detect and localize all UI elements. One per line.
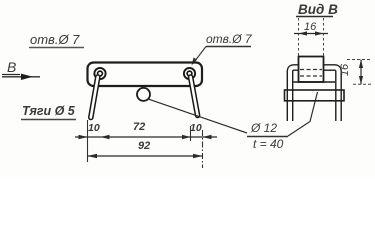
label Ø12 / t=40 [247, 121, 288, 151]
svg-text:92: 92 [138, 140, 150, 152]
svg-text:В: В [7, 59, 16, 75]
svg-text:Тяги Ø 5: Тяги Ø 5 [22, 104, 76, 118]
left pin (rod) [91, 77, 98, 118]
right pin (rod) [191, 77, 198, 116]
svg-text:10: 10 [88, 122, 100, 134]
dim 16 top: line and arrows [294, 31, 328, 35]
dimension line 10/72/10 [75, 135, 217, 140]
svg-text:t = 40: t = 40 [253, 137, 284, 151]
label: rods note bottom-left [21, 104, 76, 120]
label: holes note top-left [29, 32, 84, 48]
clamp view: U-bolt (stirrup) [290, 68, 339, 122]
clamp view: bar end (vertical rod) [299, 57, 324, 83]
svg-text:16: 16 [304, 21, 317, 33]
svg-text:10: 10 [190, 122, 202, 134]
clamp view: upper plate line [294, 81, 336, 83]
dim 16 right: line and arrows [359, 60, 363, 85]
bar (front view rounded plate) [88, 63, 203, 87]
view direction letter B [2, 59, 20, 75]
dim 16 right: extension lines [347, 60, 372, 85]
left hole [94, 68, 105, 79]
svg-text:Вид В: Вид В [298, 2, 338, 17]
extension line right pin [190, 126, 192, 141]
svg-text:отв.Ø 7: отв.Ø 7 [206, 32, 253, 46]
clamp view: wide plate [285, 90, 345, 101]
view B title [296, 2, 338, 17]
dim 16 top: extension lines [299, 18, 324, 56]
svg-text:отв.Ø 7: отв.Ø 7 [30, 32, 80, 47]
label: holes note top-middle [206, 32, 253, 47]
right hole [184, 68, 195, 79]
leader from Ø12 hole to its label [149, 99, 247, 133]
svg-text:Ø 12: Ø 12 [250, 121, 277, 135]
svg-text:72: 72 [133, 121, 145, 133]
dimension line 92 [88, 154, 203, 159]
leader from holes note to right hole [192, 47, 207, 66]
extension line right (bar edge, dash-dot) [202, 130, 204, 168]
view direction arrow [2, 74, 40, 80]
hole Ø12 in middle [137, 88, 150, 101]
svg-text:16: 16 [339, 63, 351, 76]
extension line left (bar edge) [87, 120, 89, 162]
leader from label to clamp view [288, 92, 318, 136]
